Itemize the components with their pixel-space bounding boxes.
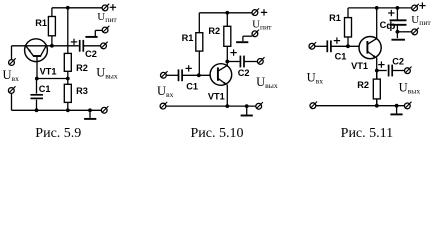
svg-text:R2: R2: [208, 26, 220, 36]
svg-text:Uвых: Uвых: [96, 66, 118, 81]
svg-text:Uпит: Uпит: [411, 14, 431, 27]
svg-text:C2: C2: [392, 57, 404, 67]
svg-text:Uвх: Uвх: [307, 70, 324, 85]
svg-text:VT1: VT1: [208, 92, 225, 102]
svg-text:R2: R2: [357, 80, 369, 90]
svg-text:Uвх: Uвх: [3, 68, 20, 83]
svg-text:Uпит: Uпит: [97, 11, 117, 24]
svg-text:C2: C2: [238, 68, 250, 78]
svg-text:C1: C1: [335, 51, 347, 61]
svg-text:ф: ф: [386, 20, 395, 32]
svg-text:Uвых: Uвых: [399, 81, 421, 96]
svg-text:R1: R1: [35, 18, 47, 28]
svg-text:Uпит: Uпит: [252, 19, 272, 32]
svg-text:C2: C2: [85, 49, 97, 59]
svg-text:R1: R1: [329, 13, 341, 23]
svg-text:R3: R3: [76, 86, 88, 96]
svg-text:VT1: VT1: [351, 61, 368, 71]
svg-text:R1: R1: [182, 33, 194, 43]
svg-text:Uвх: Uвх: [157, 84, 174, 99]
svg-text:VT1: VT1: [40, 66, 57, 76]
svg-text:C1: C1: [39, 84, 51, 94]
svg-text:Рис. 5.11: Рис. 5.11: [341, 126, 393, 141]
svg-text:Uвых: Uвых: [256, 75, 278, 90]
svg-text:C1: C1: [186, 82, 198, 92]
svg-text:Рис. 5.10: Рис. 5.10: [191, 126, 244, 141]
svg-text:Рис. 5.9: Рис. 5.9: [35, 126, 81, 141]
svg-text:R2: R2: [76, 63, 88, 73]
